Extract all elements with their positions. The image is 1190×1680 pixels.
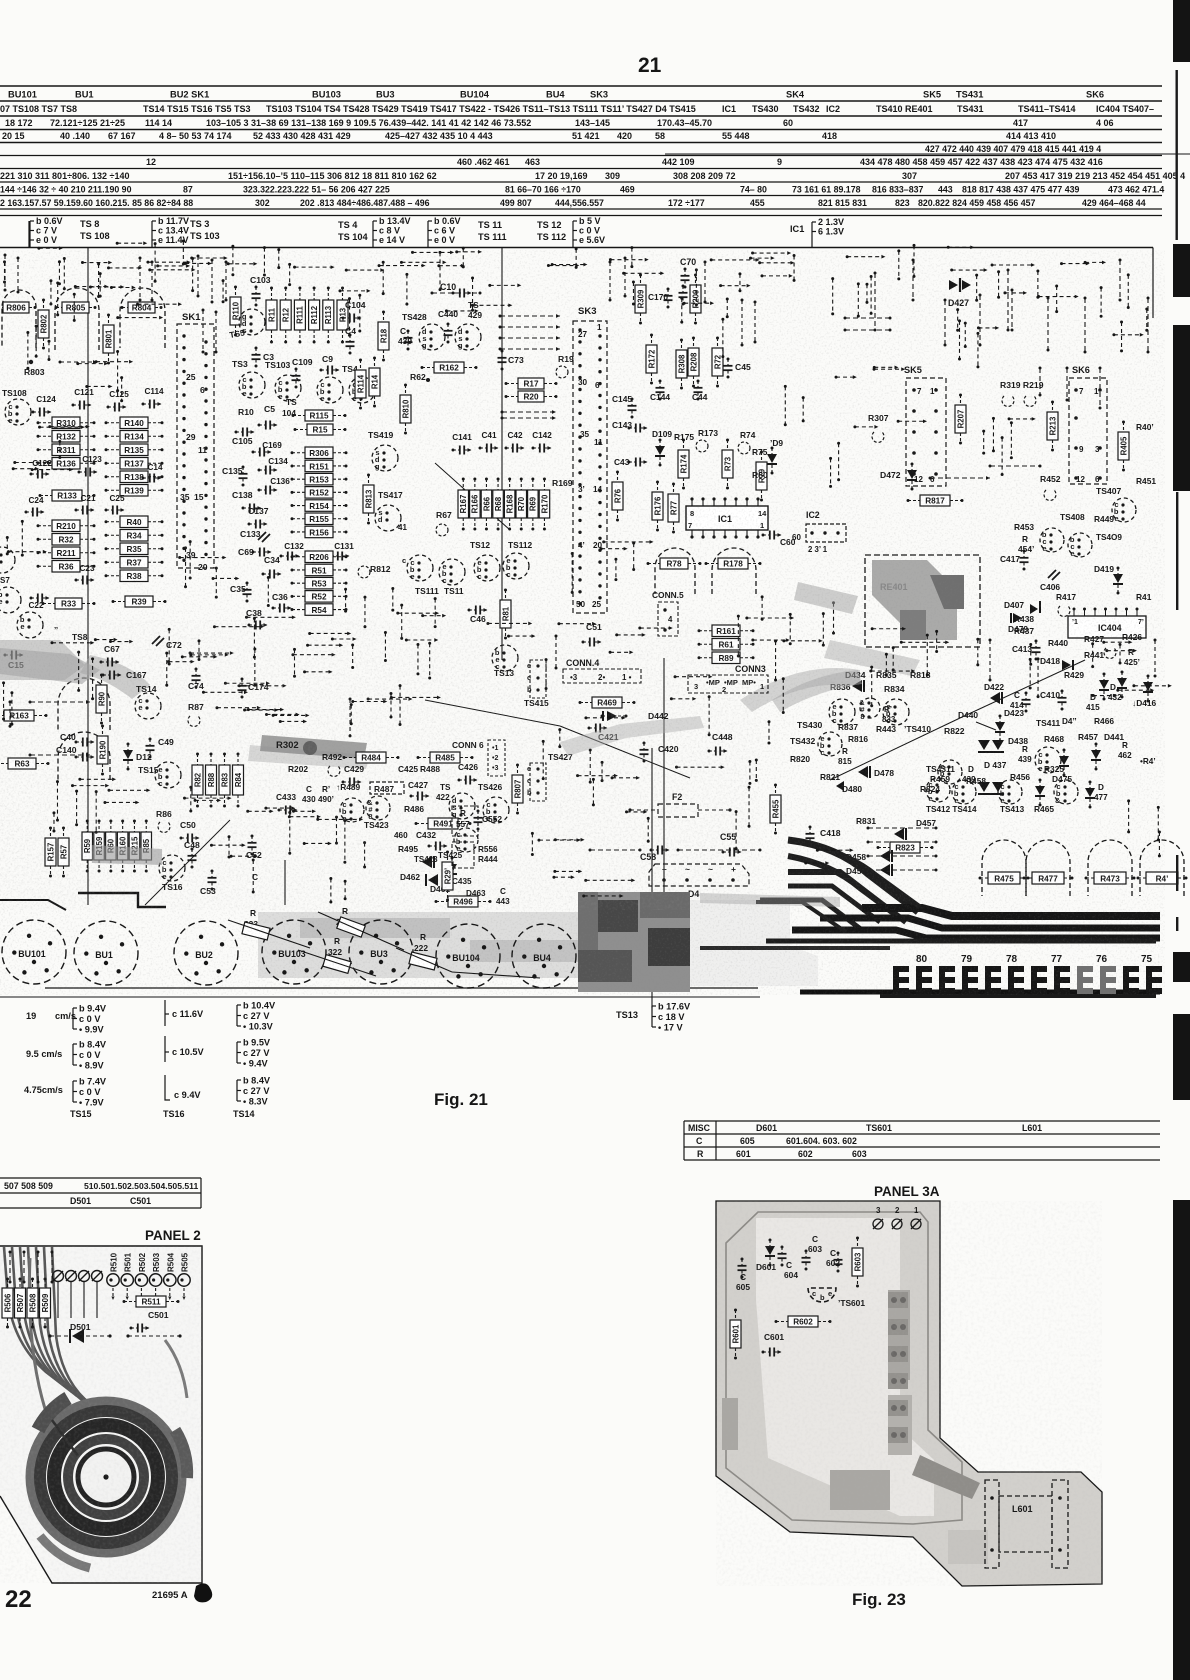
wire (56, 782, 58, 820)
transistor TS4a (317, 377, 343, 403)
resistor R17 (505, 378, 558, 389)
wire (929, 476, 991, 480)
resistor R206 (291, 551, 348, 563)
svg-text:IC1: IC1 (722, 104, 736, 114)
wire (1029, 659, 1031, 688)
capacitor C603 (802, 1250, 811, 1271)
resistor R308 (676, 339, 687, 390)
connector SK1 (177, 312, 214, 572)
wire (1158, 832, 1160, 856)
svg-text:605: 605 (740, 1136, 755, 1146)
wire (885, 654, 887, 675)
svg-text:c 18 V: c 18 V (658, 1012, 685, 1022)
wire (166, 653, 168, 685)
wire (111, 286, 133, 288)
svg-text:443: 443 (938, 185, 953, 195)
wire (332, 638, 354, 640)
svg-text:e 14 V: e 14 V (379, 235, 405, 245)
wire (592, 779, 594, 804)
wire (784, 386, 786, 424)
diagonal boundary (435, 463, 510, 530)
wire (9, 1251, 12, 1284)
wire (609, 262, 611, 300)
resistor R805 (55, 302, 97, 313)
wire (632, 282, 634, 304)
svg-text:PANEL 3A: PANEL 3A (874, 1184, 940, 1199)
wire (185, 262, 210, 264)
wire (190, 652, 232, 654)
svg-text:BU101: BU101 (8, 90, 37, 100)
svg-text:PANEL 2: PANEL 2 (145, 1228, 201, 1243)
transistor TS16 (159, 855, 185, 881)
wire (58, 262, 60, 284)
shield around R178 (712, 548, 756, 594)
wire (267, 713, 298, 715)
wire (203, 691, 246, 693)
svg-text:IC2: IC2 (826, 104, 840, 114)
wire (364, 597, 366, 627)
svg-text:427 472 440 439 407 479 41: 427 472 440 439 407 479 418 415 441 419 … (925, 144, 1101, 154)
capacitor C418 (806, 826, 815, 847)
resistor R511 (123, 1296, 180, 1307)
transistor TS8 (17, 612, 43, 638)
transistor TS112b (503, 553, 529, 579)
IC1 (686, 497, 768, 538)
svg-text:TS14 TS15 TS16 TS5 TS3: TS14 TS15 TS16 TS5 TS3 (143, 104, 251, 114)
svg-text:e 0 V: e 0 V (36, 235, 57, 245)
heavy black traces bottom right (700, 840, 1160, 992)
table: component location index upper (0, 86, 1162, 143)
diode D463 (447, 857, 457, 885)
wire (867, 855, 938, 858)
resistor R110 (230, 286, 241, 337)
wire (624, 258, 626, 296)
wire (554, 876, 573, 878)
svg-text:144 ÷146 32 ÷ 40 210 211.: 144 ÷146 32 ÷ 40 210 211.190 90 (0, 185, 132, 195)
wire (867, 827, 938, 830)
capacitor C3 (252, 347, 261, 368)
wire (531, 833, 533, 854)
wire (1128, 801, 1130, 832)
voltage annotation TS14 col (236, 1005, 238, 1026)
svg-text:BU3: BU3 (376, 90, 395, 100)
wire (501, 410, 557, 414)
wire (722, 319, 724, 356)
wire (586, 879, 634, 881)
svg-text:17 20 19,169: 17 20 19,169 (535, 171, 588, 181)
wire (392, 589, 394, 611)
resistor R72 (712, 337, 723, 388)
capacitor C40b (75, 738, 95, 747)
panel boundary line vertical mid (501, 248, 503, 660)
wire (782, 679, 784, 713)
svg-text:309: 309 (605, 171, 620, 181)
capacitor C55 (722, 848, 742, 857)
panel 3A screw holes top (873, 1219, 883, 1229)
capacitor C414 (1022, 692, 1031, 713)
wire (401, 261, 444, 263)
diode D416 (1143, 675, 1153, 703)
wire (926, 635, 928, 675)
panel 2 component area (2, 1251, 190, 1344)
resistor R823 (877, 842, 934, 853)
wire (977, 639, 979, 665)
svg-text:425–427 432 435 10 4 443: 425–427 432 435 10 4 443 (385, 131, 493, 141)
svg-text:55 448: 55 448 (722, 131, 750, 141)
wire (76, 791, 78, 825)
wire (1005, 292, 1025, 294)
svg-text:603: 603 (852, 1149, 867, 1159)
wire (1047, 297, 1050, 352)
resistor R136 (37, 458, 96, 470)
pot R503 (149, 1274, 161, 1286)
wire (192, 257, 226, 259)
resistor R475 (979, 872, 1030, 884)
wire (391, 696, 439, 698)
panel 2 concentric copper rings (30, 1398, 187, 1568)
wire (340, 290, 369, 292)
wire (52, 642, 92, 644)
wire (413, 251, 453, 253)
svg-text:c 7 V: c 7 V (36, 226, 57, 236)
transistor TS431t (938, 760, 962, 784)
gray smudge center (560, 716, 704, 756)
svg-text:b 0.6V: b 0.6V (36, 216, 63, 226)
wire (1104, 641, 1131, 643)
diode D442 (601, 711, 628, 721)
transistor TS15 (155, 762, 181, 788)
svg-text:BU4: BU4 (546, 90, 565, 100)
wire (1037, 659, 1039, 697)
resistor R161 (698, 625, 755, 637)
resistor R801 (103, 314, 114, 365)
svg-text:c 10.5V: c 10.5V (172, 1047, 205, 1057)
socket BU4 (512, 924, 576, 988)
capacitor C169 (252, 441, 283, 457)
wire (344, 821, 346, 863)
capacitor C440 (444, 323, 453, 344)
wire (21, 521, 23, 555)
wire (406, 274, 408, 304)
resistor R33 (42, 598, 96, 609)
svg-text:2 163.157.57 59.159.60 160.: 2 163.157.57 59.159.60 160.215. 85 86 82… (0, 198, 193, 208)
capacitor C124 (32, 395, 57, 417)
capacitor C21 (75, 494, 96, 515)
wire (708, 697, 710, 735)
wire (289, 812, 291, 853)
resistor R172 (646, 334, 657, 385)
wire (13, 468, 37, 470)
resistor R810 (400, 384, 411, 435)
boundary diagonal right (655, 248, 690, 440)
wire (60, 361, 95, 363)
wire (1056, 286, 1058, 312)
wire (318, 818, 361, 820)
resistor R207 (955, 394, 966, 445)
capacitor C601 (762, 1348, 782, 1357)
wire (542, 741, 544, 778)
capacitor C49 (146, 738, 155, 759)
wire (624, 272, 663, 274)
wire (755, 760, 757, 780)
wire (246, 616, 293, 618)
wire (749, 761, 751, 783)
wire (874, 366, 896, 368)
svg-text:74– 80: 74– 80 (740, 185, 767, 195)
svg-text:TS 8: TS 8 (80, 219, 99, 229)
transistor TS423a (340, 798, 364, 823)
resistor R469 (579, 697, 636, 708)
resistor R37 (105, 557, 164, 569)
relay gray fill (872, 560, 957, 640)
wire (761, 597, 763, 619)
wire (108, 267, 140, 269)
wire (571, 553, 573, 592)
svg-text:c 6 V: c 6 V (434, 226, 455, 236)
wire (151, 262, 153, 300)
wire (23, 1251, 26, 1284)
wire (95, 792, 97, 833)
transistor TS11b (439, 559, 465, 585)
svg-text:TS15: TS15 (70, 1109, 92, 1119)
wire (584, 895, 622, 897)
wire (806, 862, 828, 864)
diagonal wire through R222 (396, 948, 452, 972)
capacitor C43 (628, 458, 648, 467)
svg-text:6 1.3V: 6 1.3V (818, 227, 844, 237)
socket BU103 (262, 920, 326, 984)
shield around R90 (58, 678, 110, 730)
wire (610, 651, 631, 653)
wire (509, 635, 534, 637)
wire (59, 441, 61, 457)
RE401 relay outline (865, 555, 980, 647)
resistor R156 (291, 526, 348, 538)
resistor R170 (539, 478, 550, 531)
wire (1147, 297, 1150, 354)
wire (735, 812, 737, 849)
wire (198, 641, 200, 660)
wire (431, 292, 482, 295)
svg-text:b 9.5V: b 9.5V (243, 1037, 271, 1047)
panel 2 copper trace fan (4, 1247, 187, 1418)
capacitor C38 (248, 621, 268, 630)
transistor TS419 (372, 445, 398, 471)
svg-text:TS411–TS414: TS411–TS414 (1018, 104, 1076, 114)
wire (105, 801, 137, 803)
capacitor C121 (72, 388, 95, 410)
svg-text:816 833–837: 816 833–837 (872, 185, 923, 195)
wire (1062, 263, 1088, 265)
wire (51, 1251, 54, 1284)
resistor R310 (37, 417, 96, 429)
pot R501 (121, 1274, 133, 1286)
wire (704, 262, 706, 302)
wire (499, 325, 561, 329)
capacitor C429 (342, 778, 362, 787)
wire (253, 619, 255, 658)
resistor R306 (291, 447, 348, 459)
diode D462 (422, 856, 432, 868)
diode D472 (907, 463, 917, 491)
diode D477 (1085, 781, 1095, 809)
wire (768, 722, 770, 743)
wire (222, 281, 224, 302)
capacitor C141 (452, 433, 473, 455)
wire (612, 777, 638, 779)
wire (844, 317, 892, 320)
resistor R77 (668, 483, 679, 534)
svg-text:BU2 SK1: BU2 SK1 (170, 90, 209, 100)
resistor R18 (378, 311, 389, 362)
wire (248, 810, 272, 812)
svg-text:307: 307 (902, 171, 917, 181)
diagonal wire through R322 (298, 950, 376, 976)
wire (586, 717, 624, 719)
diagonal wire through R323 (228, 920, 310, 948)
wire (78, 652, 80, 690)
capacitor C413 (1032, 640, 1041, 661)
wire (63, 259, 65, 289)
svg-text:12: 12 (146, 157, 156, 167)
wire (695, 270, 697, 305)
wire (472, 278, 474, 310)
wire (1107, 650, 1135, 652)
resistor R311 (37, 444, 96, 456)
wire (539, 839, 579, 841)
wire (944, 299, 947, 347)
diagonal wire through R223 (318, 912, 404, 950)
resistor R84 (233, 753, 244, 808)
wire (857, 284, 859, 316)
wire (874, 272, 877, 332)
trace stubs below fingers (880, 994, 1156, 998)
wire (182, 241, 184, 264)
resistor R299 (442, 851, 453, 902)
wire (3, 262, 5, 282)
transistor TS414t (952, 780, 976, 805)
wire (753, 639, 788, 641)
svg-text:820.822 824 459 458 456 457: 820.822 824 459 458 456 457 (918, 198, 1036, 208)
resistor R13 (337, 287, 348, 344)
wire (148, 261, 189, 263)
resistor R509 (40, 1278, 51, 1329)
wire (677, 849, 762, 852)
resistor R455 (770, 784, 781, 835)
trimmer holes (53, 1271, 64, 1282)
wire (1010, 423, 1012, 458)
scan speckle gray wash mid (0, 620, 760, 910)
wire (239, 685, 284, 687)
wire (110, 641, 131, 643)
svg-text:c 27 V: c 27 V (243, 1086, 270, 1096)
ink blob (194, 1583, 212, 1602)
wire (96, 361, 131, 363)
svg-text:c 9.4V: c 9.4V (174, 1090, 201, 1100)
capacitor C167 (102, 671, 122, 680)
wire (228, 263, 255, 265)
tilted resistor R223 (336, 906, 365, 937)
resistor R83 (219, 753, 230, 808)
svg-text:499 807: 499 807 (500, 198, 532, 208)
wire (90, 286, 122, 288)
wire (15, 462, 49, 464)
resistor R557 box (452, 806, 478, 836)
gray smudge above traces (700, 893, 840, 907)
wire (472, 304, 510, 306)
svg-text:TS 4: TS 4 (338, 220, 358, 230)
resistor R4&#8217; (1137, 872, 1188, 884)
svg-text:21: 21 (638, 54, 662, 77)
resistor R152 (291, 487, 348, 499)
svg-text:429 464–468 44: 429 464–468 44 (1082, 198, 1146, 208)
tilted resistor R222 (409, 932, 437, 970)
capacitor C170 (664, 288, 673, 309)
resistor R806 (0, 302, 37, 313)
wire (11, 693, 13, 725)
wire (214, 626, 262, 628)
wire (976, 275, 978, 300)
wire (368, 698, 410, 700)
svg-text:114 14: 114 14 (145, 118, 172, 128)
wire (501, 416, 557, 420)
wire (838, 443, 840, 480)
svg-text:510.501.502.503.504.505.511: 510.501.502.503.504.505.511 (84, 1181, 198, 1191)
svg-text:R: R (697, 1149, 704, 1159)
svg-text:c 27 V: c 27 V (243, 1048, 270, 1058)
wire (266, 807, 293, 809)
wire (784, 640, 821, 642)
resistor R473 (1085, 872, 1136, 884)
panel 3A gray blotches (722, 1290, 988, 1564)
panel 3A inner white region (756, 1218, 934, 1516)
resistor R802 (38, 299, 49, 350)
wire (958, 321, 960, 359)
table MISC (684, 1121, 1160, 1160)
wire (154, 244, 156, 282)
transistor TS409 (1068, 533, 1092, 558)
resistor R138 (105, 471, 164, 483)
shield around R473 (1088, 840, 1132, 896)
wire (202, 310, 204, 352)
wire (197, 256, 199, 296)
svg-text:507 508 509: 507 508 509 (4, 1181, 53, 1191)
wire (1066, 367, 1069, 402)
wire (633, 543, 635, 569)
gray smudge mid left (92, 845, 162, 865)
resistor R79 (756, 451, 767, 502)
diode D461 (428, 874, 438, 886)
resistor R174 (678, 439, 689, 490)
svg-text:SK5: SK5 (923, 90, 941, 100)
voltage annotation TS8/TS108 (30, 216, 63, 247)
wire (817, 849, 851, 851)
wire (760, 262, 793, 264)
panel boundary line vertical right-mid (663, 658, 665, 990)
wire (1114, 334, 1142, 336)
capacitor C138 (242, 504, 262, 513)
wire (1039, 296, 1077, 298)
capacitor C41 (479, 431, 499, 453)
capacitor C114 (142, 387, 165, 409)
svg-text:TS 11: TS 11 (478, 220, 502, 230)
svg-text:19: 19 (26, 1011, 36, 1021)
svg-text:52 433 430 428 431 429: 52 433 430 428 431 429 (253, 131, 351, 141)
resistor R210 (37, 520, 96, 532)
resistor R66 (481, 478, 492, 531)
wire (631, 248, 633, 267)
wire (40, 426, 83, 428)
